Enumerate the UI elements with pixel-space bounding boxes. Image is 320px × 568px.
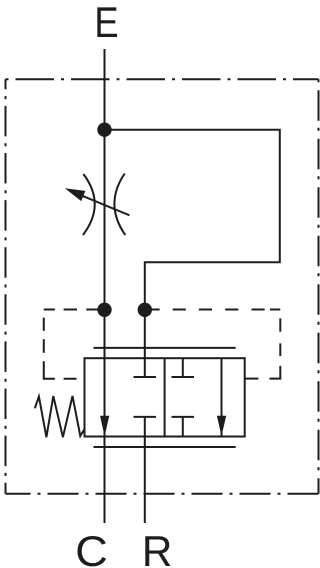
- wire J2 to valve top port: [104, 310, 106, 358]
- valve right position through-flow line: [221, 358, 223, 436]
- blocked port T bottom (left position): [134, 417, 157, 437]
- spring on valve left side: [35, 396, 85, 437]
- infinite positioning line top: [94, 347, 236, 349]
- pilot line (dashed) from J2 to spring side of valve: [44, 310, 99, 379]
- valve main box: [85, 358, 245, 436]
- valve right position flow arrowhead: [217, 416, 226, 437]
- wire J3 to valve top port: [144, 310, 146, 358]
- enclosure boundary right edge (dash-dot frame): [318, 79, 320, 493]
- pilot line (dashed) from J3 to right pilot port of valve: [150, 310, 280, 379]
- blocked port T top (left position): [134, 358, 157, 377]
- wire valve bottom port to R: [144, 437, 146, 524]
- port label C: [77, 536, 106, 566]
- wire J1 through throttle to node J2: [104, 130, 106, 310]
- throttle valve V1 right arc: [114, 174, 125, 236]
- wire valve bottom port to C: [104, 437, 106, 524]
- enclosure boundary left edge (dash-dot frame): [5, 79, 7, 493]
- pilot stub at valve right side: [245, 378, 259, 380]
- blocked port T bottom (right position): [172, 417, 195, 437]
- blocked port T top (right position): [172, 358, 195, 377]
- valve left position through-flow line: [104, 358, 106, 436]
- valve left position flow arrowhead: [100, 416, 109, 437]
- throttle valve V1 adjustment arrowhead: [65, 188, 86, 201]
- node J2 (junction dot): [97, 303, 111, 317]
- node J1 (junction dot): [97, 123, 111, 137]
- port label E: [97, 7, 117, 37]
- wire E inlet to node J1: [104, 49, 106, 130]
- infinite positioning line bottom: [94, 446, 236, 448]
- enclosure boundary top edge (dash-dot frame): [6, 78, 319, 80]
- wire bypass J1 to J2 (around throttle): [105, 130, 280, 310]
- throttle valve V1 left arc: [83, 174, 95, 235]
- enclosure boundary bottom edge (dash-dot frame): [6, 493, 319, 495]
- port label R: [145, 536, 170, 566]
- node J3 (junction dot): [138, 303, 152, 317]
- throttle valve V1 adjustment arrow shaft: [81, 195, 130, 215]
- valve position divider: [164, 358, 166, 436]
